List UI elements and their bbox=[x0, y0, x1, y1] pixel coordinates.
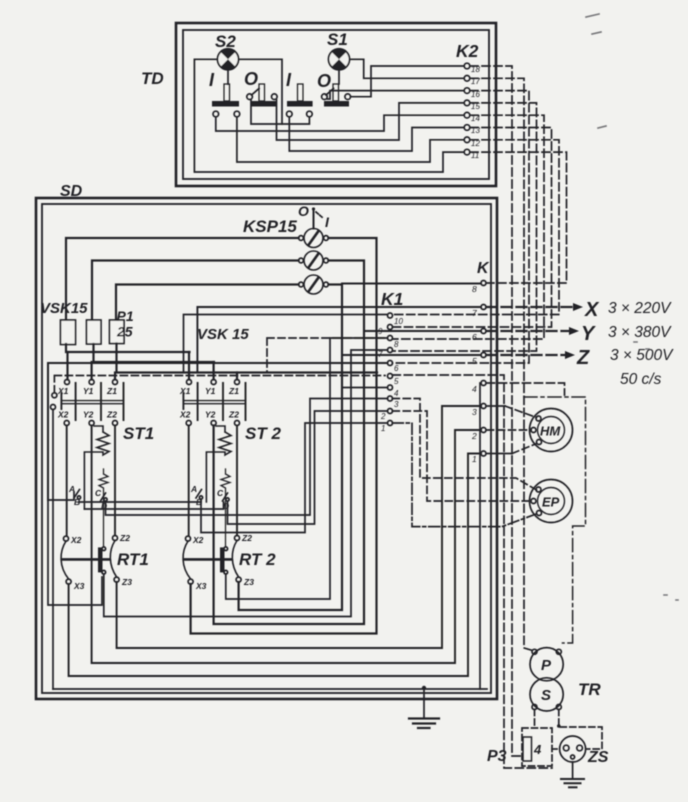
wire K1:10 solid left feed bbox=[184, 315, 388, 373]
svg-text:Z3: Z3 bbox=[121, 577, 132, 587]
cable K2-11 dashed to K:8 bbox=[470, 152, 567, 283]
switch KSP15 pole 3 bbox=[299, 275, 329, 294]
svg-text:Z2: Z2 bbox=[228, 410, 239, 420]
node K2:11 bbox=[464, 149, 479, 160]
aux contact C-D ST2 bbox=[217, 488, 229, 511]
svg-text:6: 6 bbox=[472, 332, 477, 342]
cable K2-16 dashed to K1:6 bbox=[392, 91, 529, 363]
svg-text:Z3: Z3 bbox=[243, 577, 254, 587]
wire t11 to S2 left bbox=[194, 59, 463, 172]
aux coil ST1 bbox=[99, 469, 108, 547]
wire S2 right drop bbox=[239, 59, 282, 124]
svg-text:EP: EP bbox=[542, 495, 560, 510]
contact strokes ST1 bbox=[76, 383, 124, 420]
node RT1-Z3 bbox=[114, 577, 119, 582]
svg-text:3 × 380V: 3 × 380V bbox=[608, 324, 672, 341]
wire S1 lamp stub bbox=[338, 70, 340, 84]
svg-text:5: 5 bbox=[394, 377, 399, 386]
wire ST2 aux-B to K1:1 bbox=[201, 423, 388, 533]
wire KSP pole2 left to fuse F2 bbox=[92, 261, 299, 320]
relay RT1 bbox=[61, 533, 149, 591]
switch KSP15 pole 2 bbox=[299, 251, 329, 270]
node RT1-X2 bbox=[64, 536, 69, 541]
node K2:18 bbox=[464, 63, 480, 74]
wire ST1-Z2 to RT1-Z2 bbox=[114, 426, 116, 536]
svg-text:Z2: Z2 bbox=[119, 533, 130, 543]
svg-text:S2: S2 bbox=[215, 32, 236, 51]
svg-text:4: 4 bbox=[533, 742, 542, 757]
wire rail Y drop ST1-Y1 bbox=[90, 362, 92, 380]
wire left connector to ground bus bbox=[52, 410, 54, 690]
dust marks bbox=[586, 14, 678, 600]
enclosure TD outer border bbox=[176, 23, 496, 186]
svg-text:Z1: Z1 bbox=[106, 386, 117, 396]
supply line X bbox=[487, 299, 673, 321]
node K1:1 bbox=[388, 421, 393, 426]
pushbutton S2-I bbox=[209, 70, 240, 117]
wire ST2-Z2 to RT2-Z2 bbox=[236, 426, 238, 536]
fuse F1 VSK15 bbox=[61, 320, 76, 345]
svg-text:HM: HM bbox=[540, 424, 561, 439]
node K2:15 bbox=[464, 100, 480, 111]
svg-text:4: 4 bbox=[472, 384, 477, 394]
svg-text:K: K bbox=[477, 260, 490, 277]
node K1:3 bbox=[388, 396, 393, 401]
node K1:2 bbox=[388, 409, 393, 414]
node K:8 bbox=[481, 281, 486, 286]
aux contact A-B ST1 bbox=[68, 484, 81, 507]
node ST1-X1 bbox=[65, 380, 70, 385]
wire K:8 feed bbox=[342, 283, 481, 285]
enclosure TD inner border bbox=[183, 30, 489, 179]
svg-text:X2: X2 bbox=[179, 410, 191, 420]
svg-text:ST 2: ST 2 bbox=[245, 424, 281, 443]
node RT2-X3 bbox=[188, 579, 193, 584]
node ST1-Y1 bbox=[89, 380, 94, 385]
node K2:12 bbox=[464, 137, 480, 148]
node RT2-Z3 bbox=[236, 577, 241, 582]
cable K2-14 dashed to K1:8 bbox=[392, 115, 544, 339]
fuse F3 P1 bbox=[110, 320, 125, 344]
enclosure SD inner border bbox=[42, 204, 491, 693]
svg-text:25: 25 bbox=[116, 324, 133, 340]
transformer TR primary P bbox=[530, 648, 563, 681]
node RT2-Z2 bbox=[235, 536, 240, 541]
contactor ST2 bbox=[179, 380, 281, 547]
svg-text:Y2: Y2 bbox=[205, 410, 216, 420]
node K:1 bbox=[481, 451, 486, 456]
svg-text:X2: X2 bbox=[70, 535, 82, 545]
heater RT2 left bbox=[183, 541, 191, 579]
wire I2b to O1a bbox=[251, 100, 309, 124]
cable K2-15 dashed to K1:7 bbox=[392, 103, 536, 351]
wire rail Z drop ST2-Z1 bbox=[236, 373, 238, 380]
node RT1-X3 bbox=[66, 579, 71, 584]
coil ST1 bbox=[84, 426, 109, 509]
svg-text:TR: TR bbox=[578, 680, 601, 699]
svg-text:1: 1 bbox=[381, 424, 385, 433]
wire t12 to I1b bbox=[237, 117, 464, 162]
crossbar ST1 bbox=[61, 401, 123, 404]
wire phase rail X from fuse F1 bbox=[66, 344, 190, 352]
node left connector a bbox=[52, 393, 57, 398]
lamp S2 bbox=[215, 32, 239, 70]
wire phase rail Z from fuse F3 bbox=[117, 344, 378, 373]
cable K1:5 dashed row to below P3 bbox=[392, 375, 552, 768]
svg-text:C: C bbox=[95, 488, 102, 498]
svg-text:3 × 500V: 3 × 500V bbox=[610, 347, 674, 364]
switch KSP15 handle O-I bbox=[298, 203, 330, 230]
node ST2-Z1 bbox=[235, 380, 240, 385]
svg-text:3 × 220V: 3 × 220V bbox=[608, 300, 672, 317]
lamp S1 bbox=[327, 30, 350, 70]
supply line Y bbox=[487, 323, 673, 345]
heater RT1 right bbox=[110, 541, 116, 578]
svg-text:ZS: ZS bbox=[587, 749, 609, 766]
wire ST1-Y2 to K:2 bbox=[92, 426, 481, 664]
wire KSP pole1 right drop to RT2-X3 bbox=[191, 238, 377, 634]
wire t15 to O1b bbox=[277, 100, 464, 140]
wire P3 to ZS dashed bbox=[552, 748, 560, 750]
node K1:6 bbox=[388, 361, 393, 366]
wire K:7 feed from pole1 drop bbox=[197, 307, 481, 372]
node K2:17 bbox=[464, 76, 480, 87]
svg-text:7: 7 bbox=[472, 308, 477, 318]
aux contact A-B ST2 bbox=[190, 484, 203, 507]
wire K:1 to HM bottom bbox=[487, 453, 513, 455]
svg-text:2: 2 bbox=[471, 431, 477, 441]
node RT1-Z2 bbox=[113, 536, 118, 541]
machine enclosure dash-dot bbox=[524, 397, 586, 643]
contact strokes ST2 bbox=[198, 383, 246, 420]
svg-text:Z: Z bbox=[576, 347, 590, 369]
svg-text:Z2: Z2 bbox=[241, 533, 252, 543]
svg-text:C: C bbox=[217, 488, 224, 498]
node ST2-Y1 bbox=[211, 380, 216, 385]
node ST1-Z1 bbox=[113, 380, 118, 385]
svg-text:P: P bbox=[541, 657, 552, 674]
node ST2-X1 bbox=[187, 380, 192, 385]
wire K:4 dashed to machine enclosure bbox=[487, 383, 565, 395]
wire RT1-X3 to K:1 bbox=[69, 454, 481, 677]
pushbutton S1-I bbox=[286, 70, 313, 117]
svg-text:Z2: Z2 bbox=[106, 410, 117, 420]
svg-text:RT1: RT1 bbox=[117, 550, 149, 569]
wire ST2-X2 to RT2-X2 bbox=[188, 426, 190, 537]
svg-text:SD: SD bbox=[60, 183, 83, 200]
node K1:5 bbox=[388, 374, 393, 379]
motor EP bbox=[530, 480, 573, 523]
svg-text:S1: S1 bbox=[327, 30, 348, 49]
wire S2 lamp stub bbox=[227, 70, 229, 84]
svg-text:3: 3 bbox=[394, 400, 399, 409]
svg-text:Y1: Y1 bbox=[83, 386, 94, 396]
wire K1:3 to EP top dashed bbox=[392, 399, 536, 491]
svg-text:ST1: ST1 bbox=[123, 424, 154, 443]
wire interlock D1 mid bbox=[84, 502, 223, 509]
svg-text:X1: X1 bbox=[179, 386, 191, 396]
node K2:14 bbox=[464, 112, 480, 123]
svg-text:X: X bbox=[584, 299, 600, 321]
svg-text:P1: P1 bbox=[117, 308, 134, 324]
svg-text:6: 6 bbox=[394, 364, 399, 373]
wire ST2 aux-D to K1:2 bbox=[228, 411, 388, 524]
wire KSP pole2 right drop to ST2-Y2 bbox=[214, 261, 364, 625]
wire connector a dashed to K1:5 bbox=[54, 376, 385, 393]
svg-text:VSK15: VSK15 bbox=[40, 300, 88, 317]
pushbutton S1-O bbox=[317, 71, 351, 107]
enclosure SD outer border bbox=[36, 198, 497, 699]
wire K:6 feed from pole2 drop bbox=[364, 330, 481, 332]
transformer TR secondary S bbox=[530, 678, 563, 711]
wire RT1-Z3 to K:3 bbox=[117, 406, 481, 648]
wire t13 to I2a bbox=[289, 117, 464, 151]
wire rail Z drop ST1-Z1 bbox=[114, 373, 116, 380]
node K:4 bbox=[481, 381, 486, 386]
wire K:2 to HM mid bbox=[487, 429, 532, 431]
wires lower nest bbox=[48, 284, 487, 690]
switch KSP15 pole 1 bbox=[299, 211, 329, 248]
svg-text:2: 2 bbox=[380, 412, 386, 421]
node RT2-X2 bbox=[186, 536, 191, 541]
wire t16 to O2a bbox=[327, 91, 463, 99]
junction dot S right bbox=[557, 724, 561, 728]
trip bar RT2 bbox=[184, 558, 231, 561]
wire rail Y drop ST2-Y1 bbox=[213, 362, 215, 380]
svg-text:X2: X2 bbox=[192, 535, 204, 545]
svg-text:TD: TD bbox=[141, 69, 164, 88]
svg-text:RT 2: RT 2 bbox=[239, 550, 276, 569]
wire K:3 to HM top bbox=[487, 405, 506, 407]
svg-text:VSK 15: VSK 15 bbox=[197, 326, 249, 343]
trip bar RT1 bbox=[62, 558, 109, 561]
wire KSP pole3 left to fuse F3 bbox=[116, 285, 299, 320]
aux contact C-D ST1 bbox=[95, 488, 107, 511]
svg-text:X3: X3 bbox=[73, 581, 85, 591]
svg-text:1: 1 bbox=[472, 454, 477, 464]
node K1:10 bbox=[388, 313, 393, 318]
svg-text:3: 3 bbox=[472, 407, 477, 417]
wire interlock B1 to A2 bbox=[79, 500, 201, 503]
svg-text:X1: X1 bbox=[57, 386, 69, 396]
svg-text:P3: P3 bbox=[487, 748, 507, 765]
svg-text:4: 4 bbox=[394, 389, 399, 398]
heater RT2 right bbox=[232, 541, 238, 578]
terminal strip K bbox=[471, 260, 490, 464]
wire ST2 coil to K1:8 bbox=[226, 338, 388, 599]
node K:7 bbox=[481, 305, 486, 310]
wire ST1 coil to K1:7 bbox=[104, 350, 388, 617]
fuse box P3 dashed bbox=[522, 728, 552, 766]
svg-text:10: 10 bbox=[394, 317, 403, 326]
svg-text:Y2: Y2 bbox=[83, 410, 94, 420]
wire KSP pole1 left to fuse F1 bbox=[66, 238, 299, 320]
svg-text:K2: K2 bbox=[456, 41, 479, 61]
wire t18 to O2b bbox=[351, 66, 464, 97]
fuse F2 VSK15 bbox=[87, 320, 102, 344]
ground symbol below SD bbox=[409, 686, 439, 728]
motor HM bbox=[530, 409, 573, 452]
wire K1:1 to EP bottom dash-dot bbox=[392, 423, 536, 527]
svg-text:X2: X2 bbox=[57, 410, 69, 420]
svg-text:Z1: Z1 bbox=[228, 386, 239, 396]
wire S right to ZS dashed bbox=[559, 710, 602, 750]
wire ST1-X2 to RT1-X2 bbox=[66, 426, 68, 537]
svg-text:K1: K1 bbox=[381, 289, 403, 309]
node left connector b bbox=[51, 405, 56, 410]
wire ST1 aux-D to K1:3 bbox=[106, 399, 388, 516]
wire K1:4 left stub bbox=[342, 387, 388, 389]
svg-text:KSP15: KSP15 bbox=[243, 217, 297, 236]
svg-text:5: 5 bbox=[472, 356, 477, 366]
svg-text:X3: X3 bbox=[195, 581, 207, 591]
node K:6 bbox=[481, 329, 486, 334]
node K:3 bbox=[481, 404, 486, 409]
wire t17 to S1 right bbox=[351, 59, 464, 78]
contactor ST1 bbox=[57, 380, 154, 547]
node K1:8 bbox=[388, 336, 393, 341]
svg-text:O: O bbox=[244, 69, 258, 89]
wire K1:2 to EP mid dashed bbox=[392, 411, 531, 501]
wire rail X drop ST1-X1 bbox=[66, 352, 68, 380]
node K2:16 bbox=[464, 88, 480, 99]
svg-text:A: A bbox=[190, 484, 197, 494]
aux coil ST2 bbox=[221, 469, 230, 547]
svg-text:8: 8 bbox=[472, 284, 477, 294]
cable K2-13 dashed to K1:9 bbox=[392, 128, 551, 328]
relay RT2 bbox=[183, 533, 276, 591]
wire aux-A hook left bbox=[48, 492, 102, 605]
wire KSP pole3 right drop to RT2-Z3 bbox=[239, 285, 342, 611]
crossbar ST2 bbox=[183, 401, 245, 404]
node K1:7 bbox=[388, 348, 393, 353]
wire S left to P3 dashed bbox=[534, 710, 536, 729]
terminal strip K1 bbox=[378, 289, 403, 433]
svg-text:Y1: Y1 bbox=[205, 386, 216, 396]
wire ground bus bbox=[53, 688, 487, 690]
node K1:9 bbox=[388, 325, 393, 330]
cable K2-18 dashed to P3 bbox=[470, 66, 522, 756]
cable K2-17 dashed to TR P left bbox=[470, 78, 533, 650]
svg-text:50 c/s: 50 c/s bbox=[620, 371, 662, 388]
node K:5 bbox=[481, 353, 486, 358]
svg-text:S: S bbox=[541, 687, 551, 704]
wire K:5 feed from pole3 drop bbox=[342, 354, 481, 356]
svg-text:O: O bbox=[298, 203, 309, 219]
wire K1:6 long left feed bbox=[48, 363, 388, 500]
heater RT1 left bbox=[61, 541, 69, 579]
svg-text:Y: Y bbox=[581, 323, 596, 345]
wire phase rail Y from fuse F2 bbox=[94, 344, 215, 362]
supply line Z bbox=[487, 347, 675, 388]
wire t14 to I1a bbox=[216, 115, 464, 131]
node K:2 bbox=[481, 428, 486, 433]
wire rail X drop ST2-X1 bbox=[188, 352, 190, 380]
socket ZS bbox=[560, 736, 586, 762]
fuse element P3 bbox=[523, 737, 532, 761]
ground below ZS bbox=[561, 762, 584, 787]
wire K1:8 left dashed stub bbox=[267, 338, 388, 372]
coil ST2 bbox=[206, 426, 231, 502]
wire riser to K:4 bbox=[480, 383, 481, 689]
pushbutton S2-O bbox=[244, 69, 277, 107]
node K1:4 bbox=[388, 385, 393, 390]
svg-text:O: O bbox=[317, 71, 331, 91]
svg-text:8: 8 bbox=[394, 340, 399, 349]
cable K2-12 dashed to K1:10 bbox=[392, 140, 559, 315]
node K2:13 bbox=[464, 125, 480, 135]
